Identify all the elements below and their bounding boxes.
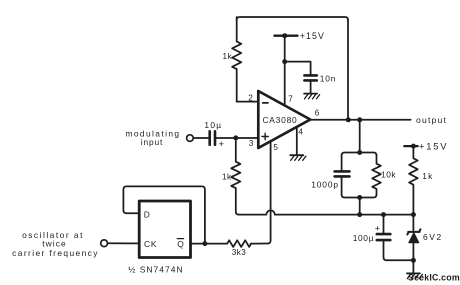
node tank top bbox=[357, 150, 362, 155]
svg-text:output: output bbox=[416, 115, 447, 125]
wire cap to pin 3 bbox=[215, 137, 258, 139]
svg-text:+15V: +15V bbox=[300, 31, 325, 41]
resistor R5 10k bbox=[372, 156, 381, 195]
node rail/tank bbox=[357, 212, 362, 217]
ground (10n) bbox=[304, 94, 320, 99]
wire pin 4 to ground bbox=[296, 127, 298, 155]
node V+ / 10n junction bbox=[282, 59, 287, 64]
wire D feedback loop bbox=[123, 186, 204, 243]
capacitor C1 10u bbox=[210, 131, 215, 144]
power +15V right bbox=[404, 145, 417, 147]
svg-text:10n: 10n bbox=[320, 74, 336, 84]
wire Q-bar output bbox=[191, 243, 228, 245]
capacitor C4 100u electrolytic bbox=[383, 215, 385, 233]
resistor R3 3k3 bbox=[227, 240, 267, 247]
resistor R2 1k bbox=[231, 138, 240, 215]
svg-text:2: 2 bbox=[248, 93, 253, 102]
terminal oscillator input bbox=[101, 240, 108, 247]
svg-text:6: 6 bbox=[315, 109, 320, 118]
wire pin 5 down to flip-flop line bbox=[268, 141, 271, 243]
wire tank cap branch bbox=[341, 156, 343, 171]
svg-text:+: + bbox=[219, 138, 225, 149]
svg-text:1000p: 1000p bbox=[311, 179, 339, 189]
svg-text:½ SN7474N: ½ SN7474N bbox=[128, 265, 183, 275]
svg-text:10k: 10k bbox=[381, 170, 396, 180]
svg-text:1k: 1k bbox=[222, 173, 232, 182]
svg-text:CK: CK bbox=[144, 239, 157, 249]
node rail/100u bbox=[381, 212, 386, 217]
svg-text:100µ: 100µ bbox=[353, 233, 374, 243]
wire pin 3 from input bbox=[193, 137, 208, 139]
wire output to tank bbox=[359, 120, 361, 153]
svg-text:twice: twice bbox=[42, 239, 67, 249]
terminal modulating input bbox=[187, 135, 194, 142]
svg-text:3: 3 bbox=[249, 139, 254, 148]
svg-text:+15V: +15V bbox=[419, 140, 448, 151]
svg-text:7: 7 bbox=[288, 95, 293, 104]
wire bottom rail with hop bbox=[239, 210, 414, 214]
svg-text:+: + bbox=[375, 223, 380, 233]
wire to 10n bbox=[285, 62, 311, 75]
svg-text:carrier frequency: carrier frequency bbox=[12, 248, 99, 258]
wire tank to rail bbox=[359, 198, 361, 215]
svg-text:4: 4 bbox=[298, 127, 303, 136]
flip-flop U2 half SN7474 bbox=[139, 201, 190, 258]
power +15V top bbox=[274, 35, 297, 37]
svg-text:CA3080: CA3080 bbox=[262, 115, 297, 125]
node rail/zener bbox=[411, 212, 416, 217]
resistor R4 1k bbox=[409, 146, 418, 215]
wire top feedback horizontal bbox=[237, 17, 348, 20]
capacitor C3 1000p bbox=[335, 171, 350, 176]
wire top feedback vertical bbox=[347, 20, 349, 120]
svg-text:5: 5 bbox=[273, 143, 278, 152]
wire pin 2 bbox=[237, 101, 259, 103]
op-amp U1 CA3080 bbox=[258, 91, 310, 148]
wire tank top bbox=[342, 153, 377, 156]
ground (zener) bbox=[407, 273, 423, 278]
wire V+ to pin 7 bbox=[284, 36, 286, 106]
capacitor C2 10n bbox=[304, 75, 316, 80]
node pin3 / R2 junction bbox=[233, 135, 238, 140]
svg-text:1k: 1k bbox=[422, 171, 433, 181]
zener D1 6V2 bbox=[412, 215, 414, 231]
wire output bbox=[310, 119, 410, 121]
svg-text:SeekIC.com: SeekIC.com bbox=[408, 273, 460, 283]
svg-text:Q: Q bbox=[177, 239, 184, 249]
node Q-bar / feedback junction bbox=[202, 241, 207, 246]
svg-text:6V2: 6V2 bbox=[423, 232, 443, 242]
svg-text:1k: 1k bbox=[223, 52, 233, 61]
svg-text:D: D bbox=[144, 209, 150, 219]
resistor R1 1k bbox=[232, 17, 241, 102]
svg-text:3k3: 3k3 bbox=[232, 248, 246, 257]
svg-text:10µ: 10µ bbox=[204, 120, 222, 130]
node output-feedback junction bbox=[346, 117, 351, 122]
node zener/100u bottom bbox=[411, 258, 416, 263]
node tank bottom bbox=[357, 195, 362, 200]
wire CK input bbox=[108, 242, 140, 244]
svg-text:input: input bbox=[141, 137, 163, 147]
node tank junction on output bbox=[357, 117, 362, 122]
ground (pin 4) bbox=[290, 155, 306, 160]
wire tank bottom bbox=[342, 195, 377, 198]
